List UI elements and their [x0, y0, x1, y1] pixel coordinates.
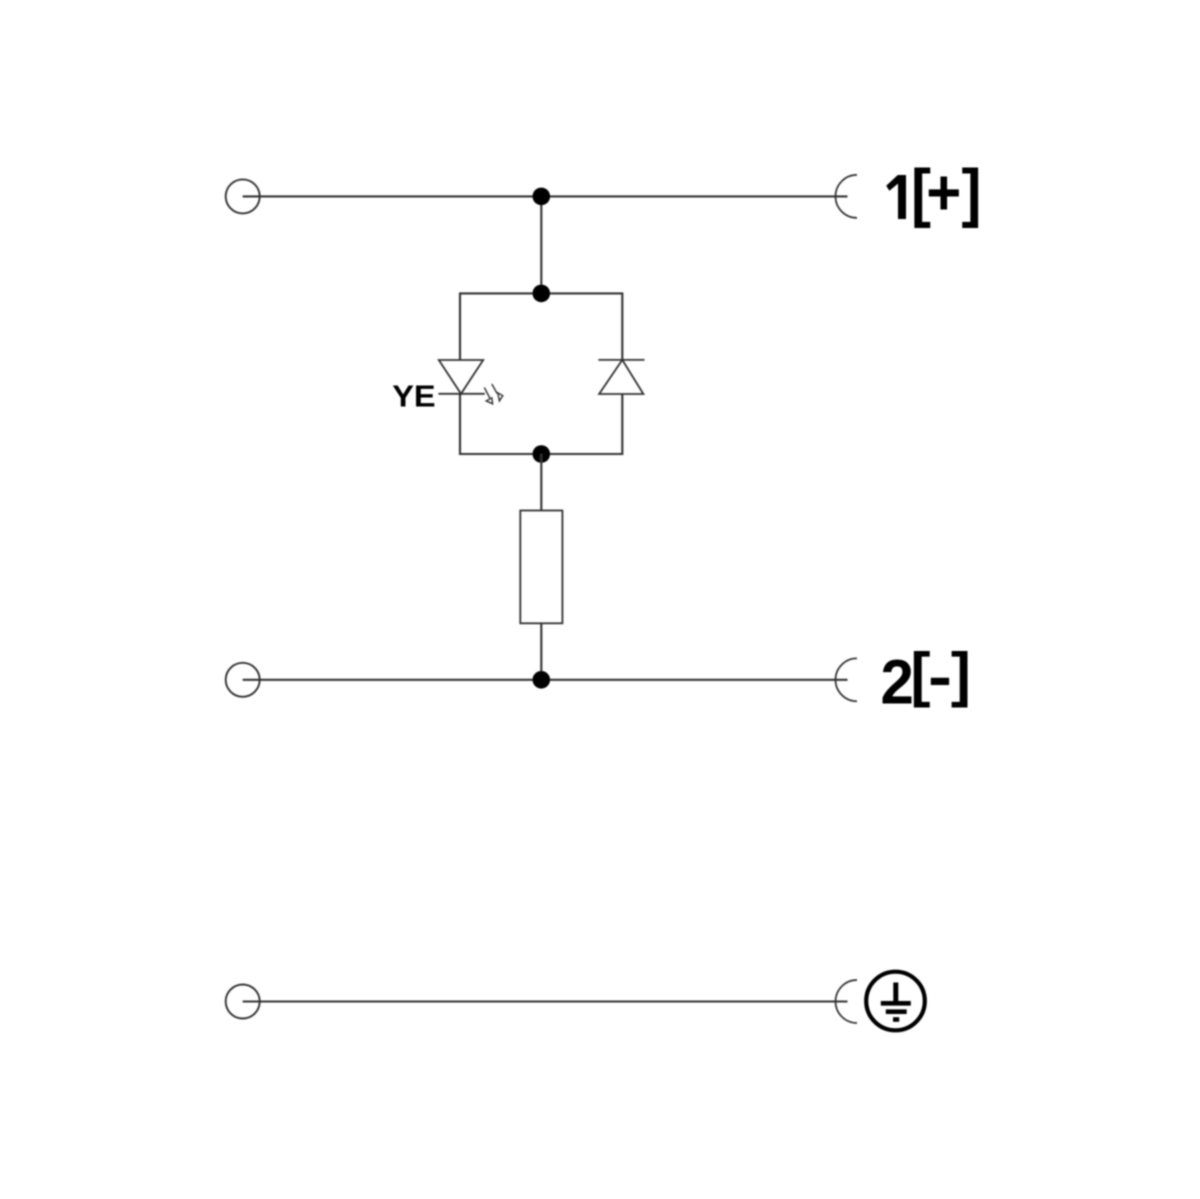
- LED D1 emission arrow b: [492, 384, 503, 401]
- svg-text:]: ]: [951, 641, 971, 708]
- svg-text:]: ]: [962, 156, 982, 229]
- wire row2 horizontal: [243, 679, 848, 681]
- diode D2 triangle: [599, 360, 643, 394]
- svg-text:YE: YE: [392, 378, 435, 413]
- junction dot row1: [533, 188, 551, 206]
- svg-text:+: +: [926, 156, 961, 229]
- wire box bottom: [460, 394, 622, 454]
- ground PE bar2: [886, 1009, 907, 1014]
- wire vertical row1 to box top: [540, 196, 542, 293]
- junction dot box bottom: [533, 445, 551, 463]
- ground PE bar1: [881, 1001, 911, 1006]
- socket contact arc row1: [835, 175, 857, 218]
- socket contact arc row2: [835, 658, 857, 701]
- junction dot box top: [533, 285, 551, 303]
- terminal circle row1 (left pin 1): [226, 179, 260, 213]
- wire resistor to row2: [540, 623, 542, 680]
- resistor R1 body: [520, 511, 562, 624]
- wire box top: [460, 293, 622, 360]
- socket contact arc row3: [836, 980, 858, 1023]
- LED D1 cathode bar: [438, 393, 484, 395]
- ground PE circle: [866, 972, 925, 1031]
- label 2[-]: [881, 641, 971, 718]
- ground PE bar3: [893, 1017, 899, 1022]
- LED D1 triangle: [439, 360, 483, 394]
- svg-text:2: 2: [881, 647, 914, 718]
- ground PE stem: [893, 983, 898, 1004]
- LED D1 emission arrow a: [484, 388, 492, 404]
- terminal circle row2 (left pin 2): [226, 663, 260, 697]
- terminal circle row3 (left pin PE): [226, 985, 260, 1019]
- junction dot row2: [533, 671, 551, 689]
- wire box bottom to resistor: [540, 454, 542, 511]
- wire row1 horizontal: [243, 195, 848, 197]
- label 1[+]: [886, 156, 981, 229]
- svg-text:-: -: [928, 644, 952, 711]
- wire row3 horizontal: [243, 1000, 848, 1002]
- diode D2 cathode bar: [598, 359, 644, 361]
